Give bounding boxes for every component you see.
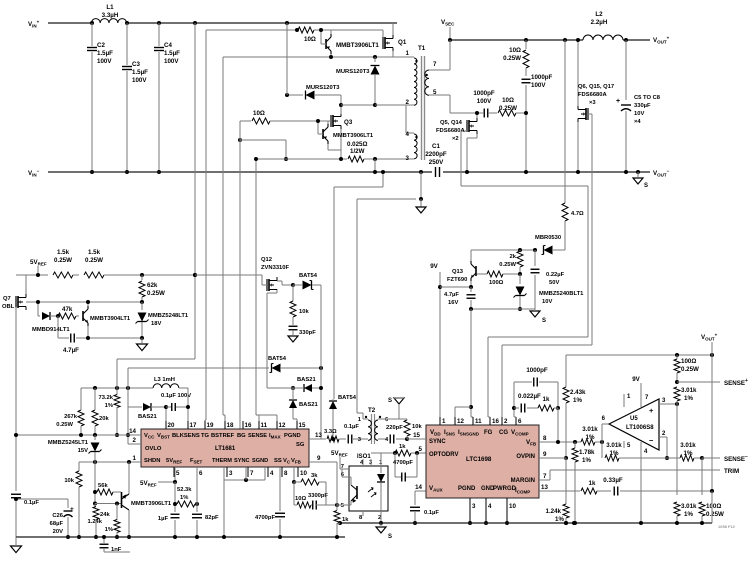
svg-text:VFB: VFB bbox=[291, 458, 302, 465]
svg-text:SYNC: SYNC bbox=[429, 439, 446, 445]
svg-text:MURS120T3: MURS120T3 bbox=[306, 85, 340, 91]
svg-text:100V: 100V bbox=[132, 77, 147, 84]
svg-text:1.24k: 1.24k bbox=[546, 508, 562, 515]
svg-text:Q13: Q13 bbox=[452, 269, 464, 275]
svg-text:52.3k: 52.3k bbox=[177, 487, 192, 493]
svg-text:LT1681: LT1681 bbox=[215, 446, 236, 452]
svg-text:10Ω: 10Ω bbox=[304, 36, 316, 43]
svg-text:16: 16 bbox=[245, 422, 252, 429]
svg-text:LTC1698: LTC1698 bbox=[466, 456, 492, 463]
svg-text:0.25W: 0.25W bbox=[56, 422, 73, 428]
svg-text:68µF: 68µF bbox=[50, 521, 64, 527]
svg-text:1k: 1k bbox=[399, 444, 406, 450]
svg-text:TRIM: TRIM bbox=[724, 468, 739, 475]
svg-text:0.1µF: 0.1µF bbox=[24, 500, 39, 506]
svg-text:SGND: SGND bbox=[252, 458, 268, 464]
svg-text:2: 2 bbox=[504, 418, 508, 425]
svg-text:0.1µF: 0.1µF bbox=[424, 510, 439, 516]
svg-text:100Ω: 100Ω bbox=[489, 280, 504, 286]
svg-text:Q7: Q7 bbox=[3, 296, 11, 302]
svg-text:CG: CG bbox=[499, 430, 508, 436]
svg-text:+: + bbox=[745, 378, 748, 384]
svg-text:1%: 1% bbox=[586, 434, 595, 441]
svg-text:L3 1mH: L3 1mH bbox=[154, 377, 175, 383]
svg-text:0.25W: 0.25W bbox=[503, 55, 521, 62]
svg-text:×3: ×3 bbox=[589, 100, 596, 106]
svg-text:MMBZ5240BLT1: MMBZ5240BLT1 bbox=[539, 291, 584, 297]
svg-text:PWRGD: PWRGD bbox=[493, 486, 517, 492]
svg-text:1%: 1% bbox=[573, 397, 582, 404]
svg-text:SENSE: SENSE bbox=[724, 380, 745, 387]
svg-text:MMBT3904LT1: MMBT3904LT1 bbox=[90, 316, 131, 322]
svg-text:10Ω: 10Ω bbox=[295, 496, 306, 502]
svg-text:OBL: OBL bbox=[2, 304, 15, 310]
svg-text:12: 12 bbox=[457, 418, 464, 425]
svg-text:1%: 1% bbox=[684, 395, 693, 402]
svg-text:100V: 100V bbox=[97, 58, 112, 65]
svg-text:1.78k: 1.78k bbox=[579, 449, 595, 456]
svg-text:1%: 1% bbox=[180, 495, 188, 501]
svg-text:0.25W: 0.25W bbox=[85, 257, 103, 264]
svg-text:6: 6 bbox=[199, 470, 203, 477]
svg-text:6: 6 bbox=[518, 418, 522, 425]
svg-text:1%: 1% bbox=[684, 450, 693, 457]
svg-text:82pF: 82pF bbox=[205, 515, 219, 521]
svg-text:10k: 10k bbox=[299, 309, 309, 315]
svg-text:8: 8 bbox=[284, 470, 288, 477]
svg-text:20: 20 bbox=[168, 422, 175, 429]
svg-text:18V: 18V bbox=[151, 321, 161, 327]
svg-text:5: 5 bbox=[419, 446, 423, 453]
svg-text:0.25W: 0.25W bbox=[706, 511, 724, 518]
svg-text:Q1: Q1 bbox=[398, 39, 407, 46]
svg-text:FZT690: FZT690 bbox=[447, 277, 467, 283]
svg-text:1%: 1% bbox=[610, 450, 619, 457]
svg-text:2200pF: 2200pF bbox=[425, 151, 447, 158]
svg-text:SHDN: SHDN bbox=[144, 458, 160, 464]
svg-text:24k: 24k bbox=[100, 512, 110, 518]
svg-text:9: 9 bbox=[317, 455, 321, 462]
svg-text:4700pF: 4700pF bbox=[393, 460, 413, 466]
svg-text:BAT54: BAT54 bbox=[338, 395, 357, 401]
svg-text:Q12: Q12 bbox=[261, 257, 272, 263]
svg-text:1.24k: 1.24k bbox=[87, 519, 102, 525]
svg-text:330pF: 330pF bbox=[299, 330, 316, 336]
svg-text:2.2µH: 2.2µH bbox=[591, 19, 608, 26]
svg-text:−: − bbox=[649, 436, 654, 445]
svg-text:0.25W: 0.25W bbox=[54, 257, 72, 264]
svg-text:7: 7 bbox=[543, 473, 547, 480]
svg-text:Q3: Q3 bbox=[344, 119, 353, 126]
svg-text:100V: 100V bbox=[164, 58, 179, 65]
svg-text:S: S bbox=[388, 398, 392, 404]
svg-text:1k: 1k bbox=[342, 517, 349, 523]
svg-text:SS: SS bbox=[274, 458, 282, 464]
svg-text:FG: FG bbox=[484, 430, 493, 436]
svg-text:2k: 2k bbox=[510, 254, 517, 260]
svg-text:1µF: 1µF bbox=[158, 516, 169, 522]
svg-text:73.2k: 73.2k bbox=[98, 395, 113, 401]
svg-text:15V: 15V bbox=[78, 448, 88, 454]
svg-text:1%: 1% bbox=[555, 516, 564, 523]
svg-text:1nF: 1nF bbox=[111, 547, 122, 553]
svg-text:11: 11 bbox=[261, 422, 268, 429]
svg-text:PGND: PGND bbox=[458, 486, 476, 492]
svg-text:MMBT3906LT1: MMBT3906LT1 bbox=[333, 133, 374, 139]
svg-text:FDS6680A: FDS6680A bbox=[578, 92, 607, 98]
svg-text:8: 8 bbox=[543, 435, 547, 442]
svg-text:1.5µF: 1.5µF bbox=[97, 50, 113, 57]
svg-text:100Ω: 100Ω bbox=[681, 358, 696, 365]
svg-text:S: S bbox=[644, 183, 648, 189]
svg-text:U5: U5 bbox=[630, 416, 638, 422]
svg-text:1: 1 bbox=[442, 418, 446, 425]
svg-text:BG: BG bbox=[237, 433, 246, 439]
svg-text:0.25W: 0.25W bbox=[499, 105, 517, 112]
svg-text:3.01k: 3.01k bbox=[681, 503, 697, 510]
svg-text:10V: 10V bbox=[634, 111, 644, 117]
svg-text:250V: 250V bbox=[429, 159, 444, 166]
svg-text:2: 2 bbox=[133, 437, 137, 444]
svg-text:17: 17 bbox=[190, 422, 197, 429]
svg-text:10k: 10k bbox=[64, 478, 74, 484]
svg-text:3.3Ω: 3.3Ω bbox=[324, 429, 337, 435]
svg-text:4.7µF: 4.7µF bbox=[63, 347, 79, 354]
svg-text:VC: VC bbox=[283, 458, 291, 465]
svg-text:L2: L2 bbox=[595, 11, 603, 18]
svg-text:14: 14 bbox=[415, 484, 422, 491]
svg-text:13: 13 bbox=[541, 484, 548, 491]
svg-text:SYNC: SYNC bbox=[234, 458, 250, 464]
svg-text:SENSE: SENSE bbox=[248, 433, 267, 439]
svg-text:C5 TO C8: C5 TO C8 bbox=[634, 95, 661, 101]
svg-text:1%: 1% bbox=[684, 511, 693, 518]
svg-text:3: 3 bbox=[406, 155, 410, 162]
svg-text:3: 3 bbox=[472, 503, 476, 510]
svg-text:MARGIN: MARGIN bbox=[511, 478, 535, 484]
svg-text:7: 7 bbox=[250, 470, 254, 477]
svg-text:1%: 1% bbox=[105, 527, 113, 533]
svg-text:10V: 10V bbox=[542, 299, 552, 305]
svg-text:OVPIN: OVPIN bbox=[516, 454, 535, 460]
svg-text:19: 19 bbox=[207, 422, 214, 429]
svg-text:1/2W: 1/2W bbox=[350, 148, 365, 155]
svg-text:C4: C4 bbox=[164, 42, 172, 49]
svg-text:1698 F12: 1698 F12 bbox=[718, 524, 736, 529]
svg-text:0.025Ω: 0.025Ω bbox=[347, 141, 367, 148]
svg-text:4: 4 bbox=[270, 470, 274, 477]
svg-text:TG: TG bbox=[201, 433, 210, 439]
svg-text:BAS21: BAS21 bbox=[138, 414, 157, 420]
svg-text:L1: L1 bbox=[106, 4, 114, 11]
svg-text:MURS120T3: MURS120T3 bbox=[336, 69, 370, 75]
svg-text:100Ω: 100Ω bbox=[706, 503, 721, 510]
svg-text:MMBD914LT1: MMBD914LT1 bbox=[32, 327, 70, 333]
svg-text:0.22µF: 0.22µF bbox=[546, 272, 565, 278]
svg-text:VCC: VCC bbox=[144, 433, 155, 440]
svg-text:12: 12 bbox=[279, 422, 286, 429]
svg-text:100V: 100V bbox=[531, 82, 546, 89]
svg-text:C26: C26 bbox=[52, 513, 63, 519]
svg-text:MMBT3906LT1: MMBT3906LT1 bbox=[131, 501, 172, 507]
svg-text:47k: 47k bbox=[62, 306, 73, 313]
svg-text:S: S bbox=[388, 534, 392, 540]
svg-text:C1: C1 bbox=[432, 143, 440, 150]
svg-text:3300pF: 3300pF bbox=[308, 493, 328, 499]
svg-text:MMBZ5248LT1: MMBZ5248LT1 bbox=[148, 313, 189, 319]
svg-text:−: − bbox=[745, 454, 748, 460]
svg-text:BAS21: BAS21 bbox=[299, 402, 318, 408]
svg-text:MMBZ5245LT1: MMBZ5245LT1 bbox=[48, 440, 89, 446]
svg-text:FSET: FSET bbox=[190, 458, 203, 465]
svg-text:1000pF: 1000pF bbox=[526, 367, 548, 374]
svg-text:3: 3 bbox=[229, 470, 233, 477]
svg-text:0.25W: 0.25W bbox=[499, 262, 516, 268]
svg-text:BAT54: BAT54 bbox=[268, 356, 287, 362]
svg-text:ZVN3310F: ZVN3310F bbox=[261, 265, 289, 271]
svg-text:10Ω: 10Ω bbox=[502, 97, 514, 104]
svg-text:10Ω: 10Ω bbox=[509, 47, 521, 54]
svg-text:0.25W: 0.25W bbox=[681, 366, 699, 373]
svg-text:11: 11 bbox=[475, 418, 482, 425]
svg-text:BAT54: BAT54 bbox=[299, 273, 318, 279]
svg-text:2.43k: 2.43k bbox=[570, 389, 586, 396]
svg-text:BLKSENS: BLKSENS bbox=[172, 433, 200, 439]
svg-text:Q5, Q14: Q5, Q14 bbox=[440, 120, 463, 126]
svg-text:SG: SG bbox=[296, 442, 305, 448]
svg-text:OVLO: OVLO bbox=[145, 446, 162, 452]
svg-text:1k: 1k bbox=[589, 480, 596, 487]
svg-text:T2: T2 bbox=[368, 407, 376, 414]
svg-text:0.25W: 0.25W bbox=[147, 290, 165, 297]
svg-text:+: + bbox=[70, 506, 74, 513]
svg-text:15: 15 bbox=[299, 422, 306, 429]
svg-text:330µF: 330µF bbox=[634, 103, 651, 109]
svg-text:10: 10 bbox=[509, 503, 516, 510]
svg-text:IMAX: IMAX bbox=[269, 433, 281, 440]
svg-text:1.5µF: 1.5µF bbox=[132, 69, 148, 76]
svg-text:+: + bbox=[616, 98, 620, 105]
svg-text:5: 5 bbox=[176, 470, 180, 477]
svg-text:3.3µH: 3.3µH bbox=[102, 12, 119, 19]
svg-text:10Ω: 10Ω bbox=[253, 110, 265, 117]
svg-text:4700pF: 4700pF bbox=[255, 515, 275, 521]
svg-text:1%: 1% bbox=[105, 403, 113, 409]
svg-text:THERM: THERM bbox=[212, 458, 232, 464]
svg-text:×2: ×2 bbox=[452, 136, 459, 142]
svg-text:LT1006S8: LT1006S8 bbox=[626, 425, 654, 431]
svg-text:1000pF: 1000pF bbox=[531, 74, 553, 81]
svg-text:7: 7 bbox=[433, 61, 437, 68]
svg-text:1: 1 bbox=[406, 50, 410, 57]
svg-text:62k: 62k bbox=[147, 282, 158, 289]
svg-text:3.01k: 3.01k bbox=[606, 442, 622, 449]
svg-text:1000pF: 1000pF bbox=[473, 90, 495, 97]
svg-text:C3: C3 bbox=[132, 61, 140, 68]
svg-text:BAS21: BAS21 bbox=[297, 377, 316, 383]
svg-text:1k: 1k bbox=[543, 396, 550, 403]
svg-text:C2: C2 bbox=[97, 42, 105, 49]
svg-text:16V: 16V bbox=[448, 300, 458, 306]
svg-text:0.1µF 100V: 0.1µF 100V bbox=[161, 393, 191, 399]
svg-text:1: 1 bbox=[133, 455, 137, 462]
svg-text:BSTREF: BSTREF bbox=[211, 433, 235, 439]
svg-text:3.01k: 3.01k bbox=[680, 442, 696, 449]
svg-text:0.1µF: 0.1µF bbox=[344, 424, 359, 430]
svg-text:220pF: 220pF bbox=[386, 425, 403, 431]
svg-text:T1: T1 bbox=[418, 45, 426, 52]
svg-text:SENSE: SENSE bbox=[724, 456, 745, 463]
svg-text:1.5k: 1.5k bbox=[88, 249, 101, 256]
svg-text:4.7Ω: 4.7Ω bbox=[571, 211, 584, 217]
svg-text:13: 13 bbox=[315, 432, 322, 439]
svg-text:3k: 3k bbox=[311, 473, 318, 479]
svg-text:3.01k: 3.01k bbox=[582, 426, 598, 433]
svg-text:3.01k: 3.01k bbox=[681, 387, 697, 394]
svg-text:9: 9 bbox=[543, 451, 547, 458]
svg-text:15: 15 bbox=[413, 432, 420, 439]
svg-text:+: + bbox=[649, 406, 654, 415]
svg-text:10: 10 bbox=[300, 470, 307, 477]
svg-text:10k: 10k bbox=[412, 424, 422, 430]
svg-text:5: 5 bbox=[433, 89, 437, 96]
svg-text:1.5k: 1.5k bbox=[57, 249, 70, 256]
svg-text:0.33µF: 0.33µF bbox=[603, 477, 623, 484]
svg-text:267k: 267k bbox=[64, 414, 78, 420]
svg-text:18: 18 bbox=[227, 422, 234, 429]
svg-text:9V: 9V bbox=[430, 263, 438, 270]
svg-text:9V: 9V bbox=[632, 376, 640, 383]
svg-text:×4: ×4 bbox=[634, 119, 641, 125]
svg-text:0.022µF: 0.022µF bbox=[518, 393, 541, 400]
svg-text:1.5µF: 1.5µF bbox=[164, 50, 180, 57]
svg-text:S: S bbox=[542, 318, 546, 324]
svg-text:MBR0530: MBR0530 bbox=[535, 235, 561, 241]
svg-text:1%: 1% bbox=[582, 457, 591, 464]
svg-text:100V: 100V bbox=[477, 98, 492, 105]
svg-text:Q6, Q15, Q17: Q6, Q15, Q17 bbox=[578, 84, 614, 90]
svg-text:4: 4 bbox=[488, 503, 492, 510]
svg-text:2: 2 bbox=[406, 99, 410, 106]
svg-text:MMBT3906LT1: MMBT3906LT1 bbox=[336, 42, 379, 49]
svg-text:VBST: VBST bbox=[157, 433, 170, 440]
svg-text:PGND: PGND bbox=[284, 433, 301, 439]
svg-text:5VREF: 5VREF bbox=[166, 458, 182, 465]
svg-text:4.7µF: 4.7µF bbox=[444, 292, 459, 298]
svg-text:OPTODRV: OPTODRV bbox=[429, 452, 458, 458]
svg-text:20k: 20k bbox=[99, 416, 109, 422]
svg-text:56k: 56k bbox=[98, 483, 108, 489]
svg-text:16: 16 bbox=[492, 418, 499, 425]
svg-text:50V: 50V bbox=[549, 280, 559, 286]
svg-text:14: 14 bbox=[129, 428, 136, 435]
svg-text:20V: 20V bbox=[53, 529, 63, 535]
